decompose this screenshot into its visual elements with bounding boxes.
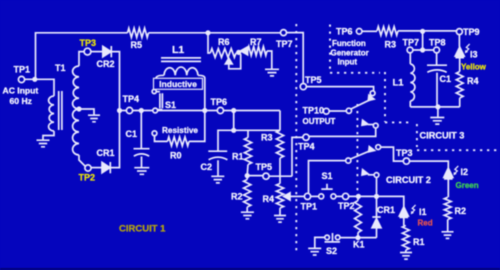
wire R3 to circuit3 rail — [398, 30, 457, 32]
switch pole B — [346, 158, 351, 163]
wire TP3 to LED I2 — [410, 161, 449, 168]
wire R7 to ground — [267, 51, 272, 69]
wire S2 to ground — [315, 237, 325, 248]
resistor R3 function gen — [377, 27, 398, 36]
svg-text:TP9: TP9 — [463, 27, 480, 37]
switch throw contact A1 — [370, 91, 375, 96]
svg-text:TP3: TP3 — [396, 148, 413, 158]
ground C1 — [134, 168, 149, 175]
svg-text:K1: K1 — [353, 239, 365, 249]
bottom edge shading — [0, 268, 500, 270]
switch throw contact B1 — [376, 145, 381, 150]
switch S1 blade — [156, 92, 162, 110]
svg-text:60 Hz: 60 Hz — [10, 96, 32, 106]
LED I1 — [400, 206, 408, 208]
resistor R3 — [279, 111, 281, 131]
wire TP2 to K1 junction to CR1 — [349, 196, 404, 206]
wire TP5 node — [250, 175, 293, 178]
svg-text:TP2: TP2 — [79, 173, 96, 183]
svg-text:CIRCUIT 3: CIRCUIT 3 — [420, 131, 465, 141]
diode CR1 — [102, 162, 110, 172]
node circuit3 mid junction — [420, 47, 425, 52]
svg-text:S1: S1 — [322, 171, 333, 181]
test point TP1 c2 — [304, 193, 310, 199]
inductor L1 c3 — [409, 53, 411, 64]
svg-text:OUTPUT: OUTPUT — [303, 117, 336, 126]
wire TP1 to S1 — [311, 195, 319, 197]
resistor R7 — [248, 47, 267, 56]
svg-text:S2: S2 — [326, 246, 337, 256]
wire CR2 cathode down to rectifier rail — [111, 52, 119, 111]
lightning arrow I3 — [465, 44, 469, 53]
capacitor C1 — [134, 111, 150, 168]
resistor R0 — [168, 137, 190, 146]
test point TP5 lower — [263, 173, 269, 179]
test point TP8 c3 — [434, 47, 440, 53]
resistor R1 c2 — [402, 226, 409, 251]
svg-text:L1: L1 — [172, 44, 184, 56]
svg-text:T1: T1 — [55, 63, 66, 73]
svg-text:TP1: TP1 — [301, 202, 318, 212]
test point TP4 mid — [303, 134, 309, 140]
svg-text:S1: S1 — [165, 100, 176, 110]
switch S1 contact top — [152, 89, 156, 93]
svg-text:Generator: Generator — [331, 49, 369, 58]
svg-text:R5: R5 — [131, 40, 143, 50]
pushbutton S2 contact left — [325, 235, 330, 240]
switch pole B wire from TP1 riser — [309, 161, 346, 194]
ground R4 — [274, 216, 286, 223]
svg-text:TP4: TP4 — [298, 141, 315, 151]
svg-text:TP3: TP3 — [80, 38, 97, 48]
wire TP1 to transformer primary — [25, 79, 54, 96]
wire L1 right leg down to node — [198, 75, 205, 110]
wire S1 to TP2 — [336, 195, 343, 197]
svg-text:TP6: TP6 — [211, 97, 228, 107]
svg-text:C1: C1 — [440, 74, 452, 84]
svg-text:R1: R1 — [232, 151, 244, 161]
test point TP6 — [217, 107, 223, 113]
svg-text:R4: R4 — [467, 76, 479, 86]
switch blade A — [351, 99, 371, 109]
test point TP2 — [85, 165, 91, 171]
wire rectifier rail — [120, 110, 127, 112]
test point TP9 — [456, 29, 462, 35]
ground R1 c2 — [400, 253, 412, 260]
node L1 branch junction — [202, 108, 207, 113]
wire main line S1 to R3 corner — [158, 110, 280, 112]
svg-text:CR1: CR1 — [97, 148, 115, 158]
svg-text:R2: R2 — [455, 206, 467, 216]
dashed circuit3 boundary step — [385, 121, 413, 123]
wire TP5 to switch throw A1 — [306, 87, 373, 91]
resistor R5 — [128, 28, 149, 37]
switch pole A — [346, 108, 351, 113]
dashed mechanical link switch bank — [356, 104, 358, 193]
wire TP4-mid branch down to TP5 node — [292, 137, 303, 176]
svg-text:Yellow: Yellow — [461, 63, 487, 72]
wire throw A2 down to TP4 line — [309, 128, 376, 136]
test point TP10 — [323, 108, 329, 114]
wire TP7-TP8 rail — [413, 49, 434, 51]
svg-text:R3: R3 — [385, 40, 397, 50]
svg-text:R7: R7 — [250, 37, 262, 47]
svg-text:R2: R2 — [231, 191, 243, 201]
inductor L1 core — [161, 58, 201, 62]
svg-text:TP1: TP1 — [14, 65, 31, 75]
test point TP3 c2 — [403, 158, 409, 164]
label box Inductive — [154, 78, 203, 89]
svg-text:TP5: TP5 — [256, 162, 273, 172]
node junction TP1/rail — [32, 77, 37, 82]
wire secondary bottom to TP2 — [79, 155, 86, 167]
wire top-left rail from corner to R5 — [36, 33, 128, 80]
svg-text:TP4: TP4 — [123, 94, 140, 104]
svg-text:I2: I2 — [461, 167, 469, 177]
wire TP2 to CR1 — [91, 167, 102, 169]
node K1 bottom — [355, 235, 360, 240]
transformer T1 core — [59, 91, 62, 130]
pushbutton S2 actuator — [325, 233, 341, 242]
svg-text:R1: R1 — [413, 237, 425, 247]
wire TP4 to S1 — [133, 110, 153, 112]
wire R4 wiper to TP1 — [290, 195, 304, 197]
ground R2 — [241, 212, 254, 219]
svg-text:TP10: TP10 — [303, 105, 325, 115]
svg-text:C2: C2 — [201, 162, 213, 172]
node bottom rail junction — [435, 104, 440, 109]
svg-text:R0: R0 — [170, 150, 182, 160]
pushbutton S1 actuator — [321, 184, 332, 189]
test point TP6 function generator — [356, 29, 362, 35]
svg-text:Green: Green — [456, 181, 479, 190]
dashed separator circuit 1 — [295, 24, 297, 252]
svg-text:R3: R3 — [261, 132, 273, 142]
ground S2 — [308, 248, 321, 255]
inductor L1 winding — [164, 67, 198, 75]
ground C2 — [211, 176, 224, 183]
svg-text:Resistive: Resistive — [162, 126, 198, 135]
wire S1 top to inductive branch — [153, 78, 155, 89]
svg-text:R6: R6 — [218, 37, 230, 47]
wire center tap to ground — [79, 109, 94, 115]
dashed circuit3 boundary left — [384, 72, 386, 122]
node R6 top junction — [205, 30, 210, 35]
pushbutton S1 contact left — [319, 194, 324, 199]
wire circuit3 bottom rail — [410, 106, 459, 108]
resistor R2 — [244, 180, 251, 208]
test point TP7 — [281, 30, 287, 36]
test point TP3 — [84, 48, 91, 55]
contact wedge B1 — [369, 147, 375, 152]
wire secondary top to TP3 — [79, 52, 84, 66]
svg-text:I1: I1 — [419, 207, 427, 217]
svg-text:CR2: CR2 — [97, 59, 115, 69]
ground circuit3 — [430, 118, 444, 125]
wire junction down to R6 — [208, 33, 210, 53]
switch S1 contact bottom — [153, 108, 158, 113]
contact wedge C1 — [362, 170, 368, 175]
switch blade B — [350, 150, 371, 159]
svg-text:TP7: TP7 — [276, 39, 293, 49]
diode CR1 c2 — [372, 196, 380, 217]
svg-text:TP7: TP7 — [403, 38, 420, 48]
svg-text:I3: I3 — [470, 50, 478, 60]
svg-text:Red: Red — [418, 218, 433, 227]
svg-text:CIRCUIT 2: CIRCUIT 2 — [386, 175, 431, 185]
resistor R4 c3 — [456, 72, 463, 99]
wire C2 branch — [218, 130, 234, 151]
contact wedge A2 — [362, 120, 368, 125]
wire TP10 to pole A — [329, 110, 346, 112]
test point TP4 — [126, 107, 132, 113]
node K1 top — [356, 194, 361, 199]
test point TP2 c2 — [343, 193, 349, 199]
LED I2 — [444, 168, 453, 177]
svg-text:TP8: TP8 — [429, 38, 446, 48]
wire R6 wiper loop — [229, 54, 241, 69]
svg-text:TP2: TP2 — [338, 201, 355, 211]
svg-text:AC Input: AC Input — [3, 86, 39, 96]
switch throw contact C1 — [374, 173, 379, 178]
dashed function generator box left — [329, 25, 331, 73]
wire TP3 to CR2 — [91, 51, 103, 53]
resistor R6 rheostat — [210, 49, 236, 58]
node rectifier junction — [117, 108, 122, 113]
ground R2 c2 — [442, 232, 454, 239]
node R6 right junction — [236, 50, 241, 55]
wire junction to ground — [437, 107, 439, 117]
wire junction to R1 and R3 — [234, 129, 280, 131]
svg-text:CR1: CR1 — [377, 205, 395, 215]
test point TP5 upper — [300, 84, 306, 90]
ground center tap — [88, 115, 100, 122]
wire throw C1 down to relay line — [376, 177, 378, 194]
lightning arrow I2 — [454, 166, 458, 175]
pushbutton S2 contact right — [335, 235, 340, 240]
wiper arrow R6 — [225, 58, 232, 64]
node R1/R2/TP5 junction — [245, 173, 250, 178]
pushbutton S1 contact right — [331, 194, 336, 199]
dashed circuit3 boundary bottom — [417, 149, 497, 151]
resistive branch contact circle — [152, 131, 157, 136]
resistor R4 potentiometer — [276, 184, 283, 209]
resistor R1 — [247, 130, 249, 137]
svg-text:TP6: TP6 — [336, 27, 353, 37]
node junction below TP6 — [231, 108, 236, 113]
svg-text:L1: L1 — [393, 77, 405, 88]
node circuit3 top junction — [420, 29, 425, 34]
svg-text:C1: C1 — [126, 129, 138, 139]
wiper arrow R4 — [284, 193, 290, 200]
dashed function generator box bottom — [330, 72, 380, 74]
dashed circuit3 boundary vertical — [416, 124, 418, 147]
wire junction down — [422, 31, 424, 50]
wire TP6 to R3 — [362, 30, 377, 32]
wire TP7 to TP5 upper — [287, 33, 304, 84]
wire bottom rail S2 to CR1 — [340, 237, 376, 239]
node junction lower — [231, 128, 236, 133]
svg-text:Input: Input — [338, 58, 358, 67]
wire R0 to main line — [189, 111, 205, 142]
lightning arrow I1 — [411, 205, 415, 214]
diode CR2 — [103, 46, 111, 56]
wire primary to ground — [43, 131, 54, 140]
node center tap junction — [76, 106, 81, 111]
wire CR1 cathode up to rectifier rail — [110, 111, 119, 168]
LED I3 — [455, 47, 464, 56]
wire junction down — [233, 111, 235, 131]
svg-text:R4: R4 — [263, 194, 275, 204]
svg-text:Function: Function — [332, 39, 366, 48]
transformer T1 secondary winding upper — [73, 66, 79, 109]
svg-text:CIRCUIT 1: CIRCUIT 1 — [119, 224, 166, 235]
wire resistive branch — [155, 136, 168, 142]
transformer T1 secondary winding lower — [73, 109, 79, 155]
wire R5 to R6 junction to TP7 — [149, 32, 281, 34]
capacitor C2 — [208, 151, 227, 176]
test point TP7 c3 — [407, 47, 413, 53]
wire L1 left leg — [156, 75, 164, 78]
relay coil K1 — [357, 196, 359, 200]
wiper arrow into R7 — [241, 47, 248, 55]
transformer T1 primary winding — [49, 96, 54, 131]
wire TP9 down to LED I3 — [458, 35, 460, 47]
test point TP1 — [18, 76, 24, 82]
switch throw contact A2 — [373, 123, 378, 128]
svg-text:TP5: TP5 — [305, 75, 322, 85]
capacitor C1 c3 — [427, 53, 447, 107]
ground R7 — [265, 69, 279, 76]
node CR1 top — [374, 194, 379, 199]
contact wedge A1 — [368, 95, 374, 100]
svg-text:Inductive: Inductive — [159, 79, 197, 89]
node C1 junction — [139, 108, 144, 113]
wire throw B1 to TP3 — [381, 147, 404, 161]
ground primary — [37, 140, 50, 147]
resistor R2 c2 — [444, 197, 451, 219]
